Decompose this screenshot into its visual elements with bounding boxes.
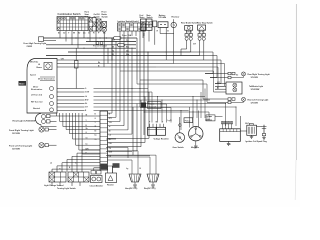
tail brake light LP6 body (226, 82, 242, 94)
front left turning light label (9, 145, 32, 151)
main switch label (147, 15, 154, 19)
trunk wire x137 (136, 38, 138, 80)
voltage rectifier VR1 body (148, 127, 169, 140)
svg-text:Lb: Lb (95, 135, 97, 137)
battery label (158, 14, 166, 19)
svg-text:Flasher: Flasher (107, 185, 114, 187)
fuse F2 (118, 44, 125, 47)
turn indicator lamp left (31, 94, 54, 98)
gear switch SW body (173, 133, 185, 149)
svg-text:12V21/5W: 12V21/5W (251, 89, 260, 91)
horn start switch label (85, 11, 92, 18)
junction dots top bus (75, 37, 166, 52)
svg-text:Brake: Brake (102, 14, 108, 16)
svg-text:12V10W: 12V10W (12, 133, 20, 135)
magneto M1 body (189, 127, 203, 149)
rear brake switch S7 body (185, 26, 193, 31)
CDI unit U1 body (220, 129, 241, 146)
engine stop switch S3 contact grid (97, 19, 102, 31)
rear stop switch S8 body (198, 25, 206, 30)
svg-text:Magneto: Magneto (191, 146, 200, 149)
junction dots mid band (111, 41, 236, 113)
svg-text:Light Change Second: Light Change Second (44, 184, 64, 187)
wires into handle switch cluster (50, 150, 100, 172)
svg-text:Lb: Lb (50, 163, 52, 165)
front brake indicator lamp (102, 28, 106, 32)
voltage rectifier terminals (149, 120, 172, 127)
svg-text:Gr/W: Gr/W (85, 92, 89, 94)
front left turning light LP5 (39, 143, 57, 148)
svg-text:Rear Brake Switch: Rear Brake Switch (181, 21, 198, 24)
rear brake connector pins (185, 37, 192, 40)
CDI ground (227, 141, 230, 145)
main switch connector (153, 21, 157, 27)
combination switch drop wires (60, 31, 96, 49)
svg-text:Gr: Gr (86, 138, 88, 140)
meter lower fan wires with color labels (59, 88, 89, 112)
flasher relay FL1 (105, 164, 117, 186)
svg-text:Voltage Rectifier: Voltage Rectifier (154, 138, 169, 141)
svg-text:Neutral: Neutral (33, 107, 40, 110)
spark plug ground (262, 136, 265, 140)
rear right turning light wire (205, 72, 238, 76)
strip bottom feed wires (94, 157, 150, 174)
svg-text:Br: Br (95, 130, 97, 132)
wire bus row y48.2 (46, 47, 136, 49)
rear right turning light LP7 (242, 72, 246, 76)
svg-text:Sb: Sb (86, 128, 88, 130)
svg-text:Front: Front (102, 10, 107, 13)
svg-text:Lg: Lg (126, 168, 128, 170)
central vertical bundle wires (108, 38, 133, 134)
svg-text:RH Turn Ind: RH Turn Ind (31, 101, 43, 103)
wire run rear left turning (137, 80, 207, 102)
rear left turning light LP8 (242, 97, 246, 101)
meter illumination lamp (31, 85, 54, 91)
ignition coil ground (250, 135, 253, 138)
ignition coil terminal labels (245, 123, 250, 125)
svg-text:Fuse 15A: Fuse 15A (122, 34, 132, 37)
wire meter feed y67 (59, 65, 156, 67)
svg-text:Lb: Lb (85, 96, 87, 98)
meter interior micro labels (30, 62, 55, 81)
rear switch drop wires (181, 40, 204, 60)
main switch S6 body (146, 19, 152, 30)
strip left side labels (95, 114, 97, 141)
svg-text:Combination Switch: Combination Switch (58, 13, 82, 16)
harness nested corners right of strip (108, 92, 150, 155)
svg-text:Front High Turning Light: Front High Turning Light (24, 42, 47, 45)
svg-text:12V10W: 12V10W (12, 149, 20, 151)
trunk wire x148 (147, 52, 149, 100)
trunk wire x144 (143, 33, 145, 135)
rear stop switch connector (198, 30, 205, 36)
pickup coil PC1 (181, 112, 193, 123)
engine on-off switch label (94, 14, 101, 19)
svg-text:Sb: Sb (236, 74, 238, 76)
horn H1 ground (125, 182, 138, 190)
svg-text:Gr: Gr (63, 31, 66, 34)
wire front brake drop (103, 26, 105, 28)
main switch drop wires (143, 27, 155, 45)
wire bus row y38 (44, 37, 114, 39)
wire run tail light feeds (120, 52, 225, 92)
battery resistor link wire (160, 34, 174, 56)
rear right turning return wire (210, 76, 244, 79)
horn H2 ground (144, 182, 156, 190)
high beam indicator lamp (37, 63, 53, 70)
strip right side wires (106, 139, 150, 168)
frame ground lamp symbol (93, 42, 108, 48)
front right turning light label (9, 129, 34, 135)
svg-text:Rear Right Turning Light: Rear Right Turning Light (248, 73, 270, 76)
meter assembly enclosure (27, 59, 57, 114)
svg-text:Pickup: Pickup (185, 121, 191, 123)
svg-text:Lb: Lb (109, 135, 111, 137)
svg-text:Lb: Lb (86, 144, 88, 146)
harness staircase below meter (57, 113, 101, 155)
svg-text:W: W (73, 32, 75, 34)
gear switch feed diode (178, 117, 181, 133)
svg-text:Speed: Speed (30, 75, 37, 77)
strip right side labels (109, 114, 113, 158)
svg-text:Tail/Brake Light: Tail/Brake Light (249, 85, 263, 88)
switch cluster bottom stubs (52, 182, 80, 186)
rear left turning light label (248, 98, 269, 104)
svg-text:Head Light 12V35/35W: Head Light 12V35/35W (13, 120, 37, 123)
magneto stator leads (190, 107, 199, 128)
svg-text:Br: Br (113, 39, 115, 42)
trunk wire x140 (139, 36, 141, 107)
battery BT1 body (157, 22, 170, 34)
svg-text:Turning Light Switch: Turning Light Switch (57, 187, 77, 190)
rear stop connector pins (198, 37, 205, 40)
wire vertical x108 link (107, 48, 109, 63)
svg-text:B/W: B/W (109, 151, 113, 153)
start relay horn H2 (147, 174, 159, 182)
svg-text:Br: Br (109, 130, 111, 132)
ignition switch S5 contact table (118, 23, 146, 31)
CDI feed wires (215, 116, 240, 129)
svg-text:Sb: Sb (85, 103, 87, 105)
combination switch S1 contact table (57, 17, 88, 31)
horn second feed wires (133, 151, 156, 174)
wire vertical x112 to ladder (111, 38, 113, 60)
wire bus row y41.5 (44, 40, 57, 42)
wire meter feed y63.5 (59, 62, 174, 64)
rear left turning return wire (207, 101, 244, 104)
horn H1 (126, 168, 142, 182)
switch cluster caption (44, 184, 77, 190)
turning light switch S10 grid (68, 172, 89, 182)
magneto ground (194, 141, 198, 148)
horn start switch S2 contact grid (89, 18, 96, 32)
main harness connector strip (100, 111, 120, 170)
front high turning light label (24, 42, 47, 48)
svg-text:Front Left Turning Light: Front Left Turning Light (9, 145, 32, 148)
svg-text:Resistor: Resistor (172, 16, 180, 19)
svg-text:Front Right Turning Light: Front Right Turning Light (9, 129, 34, 132)
svg-text:12V10W: 12V10W (251, 102, 258, 104)
svg-text:Gr: Gr (95, 139, 97, 141)
svg-text:12V10W: 12V10W (251, 77, 258, 79)
svg-text:Switch: Switch (102, 16, 109, 19)
wire vertical x104 link (103, 45, 105, 67)
front brake switch label (102, 10, 109, 18)
front turning connector (39, 37, 44, 42)
tail brake light feed wires (215, 82, 226, 92)
rear left turning light wire (203, 98, 235, 101)
wire bus row y44.8 (46, 44, 118, 46)
fuel meter sender body (141, 19, 147, 30)
rear right turning light label (248, 73, 270, 79)
frame ground boxed label (141, 102, 161, 109)
svg-text:12V 4Ah: 12V 4Ah (158, 16, 166, 19)
svg-text:Lg: Lg (109, 156, 111, 158)
circuit breaker CB1 (90, 171, 104, 188)
meter terminal ticks (57, 60, 59, 111)
wire bus row y55.5 (46, 55, 200, 57)
svg-text:Ignition Coil Spark Plug: Ignition Coil Spark Plug (246, 140, 268, 143)
svg-text:Rev(DC 12V): Rev(DC 12V) (144, 188, 156, 190)
wire bus row y52 (68, 51, 191, 53)
turn indicator lamp right (31, 101, 54, 105)
svg-text:Start: Start (85, 13, 90, 16)
ignition switch drop wires (120, 31, 144, 48)
svg-text:Frame Ground: Frame Ground (93, 46, 108, 48)
svg-text:B/W: B/W (85, 100, 89, 102)
svg-text:Gr: Gr (59, 169, 61, 171)
light change switch S9 grid (49, 172, 66, 182)
rear brake switch connector (185, 30, 192, 36)
svg-text:Beam: Beam (37, 67, 43, 69)
spark plug PL1 (257, 125, 267, 136)
resistor R1 body (171, 19, 176, 33)
svg-text:Meter Illumination: Meter Illumination (38, 78, 55, 81)
svg-text:Meter: Meter (19, 83, 25, 86)
svg-text:21GW: 21GW (27, 46, 33, 48)
fuel meter label (140, 15, 145, 19)
svg-text:Mile/Odo: Mile/Odo (30, 62, 39, 64)
svg-text:W: W (156, 122, 158, 124)
neutral indicator lamp (33, 107, 54, 112)
svg-text:On/Off: On/Off (94, 14, 100, 16)
page right edge line (295, 4, 296, 200)
svg-text:Br: Br (78, 31, 80, 34)
tail brake light label (249, 85, 263, 91)
svg-text:Gear Switch: Gear Switch (173, 146, 185, 149)
combination switch terminal labels (58, 31, 106, 34)
mid band vertical drops (140, 89, 205, 131)
ignition coil T1 body (240, 124, 256, 136)
CDI feed labels boxed (206, 115, 215, 121)
svg-text:Rear Stop Switch: Rear Stop Switch (197, 21, 213, 24)
wire runs CDI feeds horizontal (144, 100, 212, 120)
svg-text:Circuit Breaker: Circuit Breaker (90, 184, 104, 187)
wire run battery to rear lamps (191, 52, 217, 78)
front right turning light LP4 (39, 127, 57, 132)
front brake switch S4 body (102, 22, 107, 28)
svg-text:Horn(DC 12V): Horn(DC 12V) (125, 188, 138, 190)
head light LP3 body (36, 114, 57, 127)
mid band horizontal wires (94, 88, 237, 126)
svg-text:Br: Br (98, 62, 100, 64)
meter bracket label (19, 81, 27, 86)
svg-text:LH Turn Ind: LH Turn Ind (31, 94, 43, 96)
svg-text:Rear Left Turning Light: Rear Left Turning Light (248, 98, 269, 101)
ladder wire color labels (113, 39, 130, 57)
svg-text:Illumination: Illumination (31, 88, 43, 91)
fuse F3 on vertical feed (75, 48, 79, 88)
rear switch mid labels (186, 32, 204, 34)
fuse F1 15A (114, 34, 132, 39)
svg-text:Lg/R: Lg/R (168, 120, 173, 122)
wire meter feed y60 (59, 58, 166, 60)
